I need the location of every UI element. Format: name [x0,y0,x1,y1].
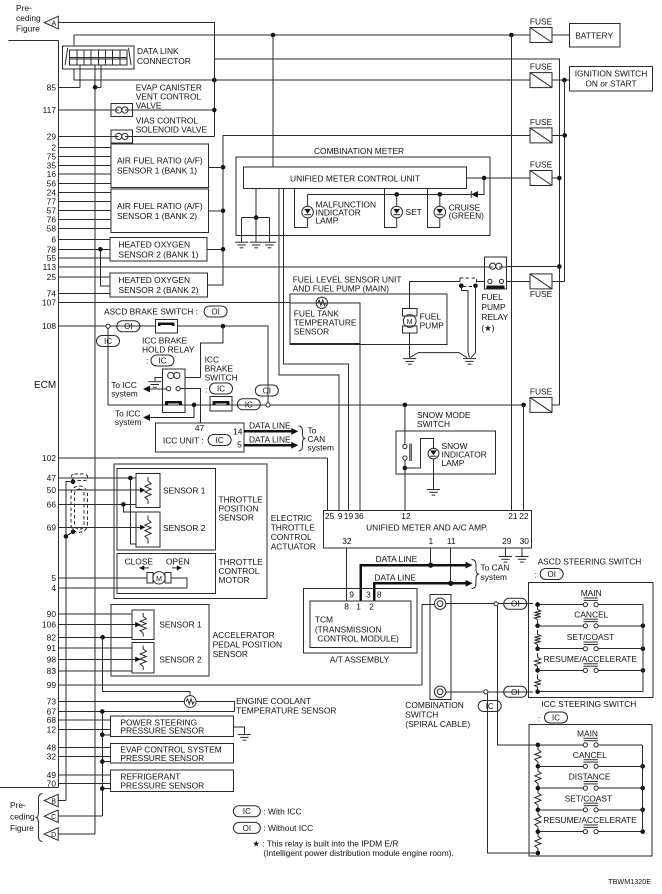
wire: ECM pin 108 [59,325,156,327]
ECM pin 35 label [47,160,57,170]
junction: brake wire tap to ICC system (lower) [149,403,196,418]
ECM pin 73 label [47,697,57,707]
ICC unit pin 47 label [195,423,205,433]
wire: snow lamp ground [433,459,435,489]
ICC SET/COAST switch [536,793,645,812]
svg-text:FUSE: FUSE [530,160,553,170]
svg-text:IC: IC [159,357,167,366]
wire: power steering sensor ground [233,727,244,734]
throttle control motor label [219,557,264,585]
svg-text:ECM: ECM [34,380,56,391]
junction: A-supply rail at fuse F4 [557,176,562,181]
APP sensor 2 wiper arrow [135,657,141,662]
svg-text:DATA LINE: DATA LINE [249,421,291,431]
in-line connector pair (dashed, tall) [71,486,88,532]
svg-text::: : [534,570,536,580]
diode (meter lamp feed) [471,191,478,198]
APP sensor 2 resistor [140,646,146,671]
preceding-figure label (top) [16,3,41,34]
svg-text:ACTUATOR: ACTUATOR [271,542,316,552]
svg-text:SENSOR 2: SENSOR 2 [159,655,202,665]
combination meter title [314,146,404,156]
wire: fuse F1 to battery [552,34,569,36]
ECM pin 69 label [47,522,57,532]
wire: ECM pin 16 [59,173,112,175]
wire: ECM pin 6 [59,239,111,241]
heated oxygen sensor 2 bank 2 box [110,273,208,297]
wire: ECM pin 68 [59,719,111,721]
svg-text:SENSOR 2 (BANK 1): SENSOR 2 (BANK 1) [119,249,199,259]
wire: A/C amp pin 1 to data line [430,548,432,565]
svg-text::: : [538,714,540,724]
svg-text:25: 25 [47,272,57,282]
legend star note [252,839,453,859]
ECM pin 107 label [42,298,56,308]
wire: ECM pin 57 [59,210,112,212]
ECM pin 57 label [47,206,57,216]
fuel level sensor unit label [293,275,402,294]
wire: DLC pin down-left to ECM pin 85 [79,65,81,87]
ECM pin 78 label [47,244,57,254]
junction: pin 69 tap to preceding figure B [64,527,76,538]
ECM pin 58 label [47,224,57,234]
ECM pin 77 label [47,197,57,207]
snow indicator lamp [428,448,439,459]
ECM pin 24 label [47,188,57,198]
ECM label [34,380,56,391]
svg-text:70: 70 [47,779,57,789]
svg-text:TCM: TCM [315,615,333,625]
wire: ECM pin 4 [59,587,188,589]
CAN brace (A/C amp) [472,560,480,589]
wire: ignition rail down right side [564,80,566,281]
wire: A/C amp pin 30 ground [521,548,523,556]
ground (power steering sensor) [238,735,251,741]
to ICC system label (upper) [111,380,138,399]
data line 1 label [376,554,418,564]
wire: meter output to A/C amp pin 9 [279,188,339,510]
svg-text:IC: IC [552,714,560,723]
ICC brake hold relay coil [168,372,180,378]
svg-text:BATTERY: BATTERY [575,31,613,41]
ECM pin 102 label [42,453,56,463]
junction on battery feed at combination meter riser [271,33,276,38]
fuel pump relay label [481,292,508,333]
arrow to ICC system (lower) [143,414,150,421]
ECM pin 48 label [47,742,57,752]
svg-text:29: 29 [502,536,512,546]
fuel level sensor unit and fuel pump box [290,294,447,345]
svg-text:DISTANCE: DISTANCE [569,772,611,782]
wire: EVAP solenoid to supply riser [132,109,214,111]
with-ICC marker oval (ICC brake switch) [205,383,233,395]
svg-text:85: 85 [47,82,57,92]
svg-text:FUSE: FUSE [530,17,553,27]
ICC brake hold relay box [163,369,185,413]
junction: sensor-ground bus at pin 67 [100,709,105,816]
fuse F5 (fuel pump) [530,274,553,299]
wire: fuse F6 to A-supply rail corner [552,404,559,406]
ECM pin 12 label [47,724,57,734]
snow mode switch label [417,410,471,429]
svg-text:SENSOR 2 (BANK 2): SENSOR 2 (BANK 2) [119,285,199,295]
wire: ECM pin 12 [59,728,111,730]
wire: ECM pin 75 [59,156,112,158]
svg-text:83: 83 [47,666,57,676]
svg-text:ICC STEERING SWITCH: ICC STEERING SWITCH [541,699,636,709]
wire: battery feed to unified meter control unit [272,35,274,167]
wire: ECM pin 106 [59,624,141,626]
fuse F6 [530,386,553,412]
svg-text:: Without ICC: : Without ICC [263,823,313,833]
wire: fuse F3 to ignition rail [552,134,565,136]
svg-text:A/T ASSEMBLY: A/T ASSEMBLY [330,655,390,665]
fuse F1 (battery) [530,17,553,43]
legend OI oval [233,822,260,833]
svg-text:102: 102 [42,453,56,463]
wire: battery feed down to A/C amp pin 21 [510,35,512,511]
ECM pin 106 label [42,620,56,630]
svg-text:PEDAL POSITION: PEDAL POSITION [213,640,283,650]
junction: ground bus stub to EVAP sensor [100,759,111,764]
snow indicator lamp label [442,441,487,468]
svg-text:SWITCH: SWITCH [205,373,238,383]
wire: ECM pin 98 [59,658,141,660]
data link connector label [137,46,191,66]
svg-text:OI: OI [211,308,219,317]
svg-text:OI: OI [511,600,519,609]
combination meter box [236,157,490,236]
wire: ECM pin 83 [59,670,133,672]
APP sensor 2 box [132,642,154,673]
svg-text:CONNECTOR: CONNECTOR [137,56,191,66]
junction: heater supply at A/F bank1 [208,165,225,170]
svg-text:ASCD BRAKE SWITCH :: ASCD BRAKE SWITCH : [104,307,198,317]
engine coolant temperature sensor (thermistor) [184,696,196,708]
TPS sensor 2 wiper arrow [140,525,146,530]
svg-text:11: 11 [447,536,456,546]
unified meter control unit box [244,167,467,189]
ground (fuel pump shield) [463,359,476,365]
ground (meter, left) [235,242,248,248]
fuel tank temperature sensor box [290,303,360,344]
wire: relay contact to ICC system (arrow) [149,388,166,390]
A/T connector pin labels (9 3 8) [349,590,382,600]
junction: A-supply rail at fuel pump relay coil [557,264,562,269]
svg-text:C: C [51,814,56,821]
A/C amp top pin labels [325,511,529,521]
ECM pin 6 label [51,235,56,245]
svg-text:HEATED OXYGEN: HEATED OXYGEN [119,275,191,285]
ICC unit pin 5 label [237,440,242,450]
ASCD brake switch contact [158,323,174,327]
accelerator pedal position sensor label [213,630,283,659]
svg-text:Pre-: Pre- [16,3,32,13]
junction: lamp bus at CRUISE lamp [438,192,443,197]
ASCD CANCEL switch [535,609,645,628]
wire: ECM pin 48 [59,746,111,748]
svg-text:AND FUEL PUMP (MAIN): AND FUEL PUMP (MAIN) [293,284,390,294]
svg-text:SWITCH: SWITCH [417,419,450,429]
malfunction indicator lamp label [316,200,377,226]
APP sensor 1 resistor [140,613,146,637]
junction: lamp bus at SET lamp [394,192,399,197]
ground (ICC brake hold relay) [148,382,161,388]
wire: DLC K-line down the page to triangle D [94,65,96,834]
in-line connector (fuel pump, dashed) [460,278,477,287]
ECM pin 90 label [47,609,57,619]
svg-text:IC: IC [486,702,494,711]
ECM pin 32 label [47,752,57,762]
svg-text:SET/COAST: SET/COAST [567,632,614,642]
ICC brake switch contact [213,401,229,405]
svg-text:OI: OI [511,688,519,697]
svg-text:3: 3 [366,590,371,600]
wire: ECM pin 50 [59,489,141,491]
wire: ECM pin 69 [59,526,141,528]
without-ICC marker oval (ASCD brake switch label) [204,306,227,317]
wire: motor return to ECM pin 4 [171,578,187,588]
svg-text:32: 32 [47,752,57,762]
svg-text:OI: OI [124,322,132,331]
svg-text:DATA LINE: DATA LINE [249,435,291,445]
ICC MAIN switch [536,728,643,747]
wire: spiral bottom branch down to ICC switch [487,694,538,853]
ground (snow lamp) [427,490,440,496]
data line 2 label [374,573,416,583]
ECM pin 99 label [47,680,57,690]
svg-text:PUMP: PUMP [420,321,445,331]
wire: ECM pin 82 [59,636,133,638]
wire: relay contact to fuse F5 [506,280,530,282]
wire: battery feed from DLC (y=35) to fuse [74,34,530,36]
wire: ECM pin 66 [59,503,137,505]
wire: lamp feed from unified unit via diode [308,176,530,195]
wire: VIAS solenoid to supply riser [132,135,214,137]
junction: fuel pump connector shield left [459,284,468,353]
svg-text:IC: IC [216,436,224,445]
to ICC system label (lower) [115,409,142,428]
ICC brake hold relay contact circles [167,387,181,391]
svg-text:SENSOR 2: SENSOR 2 [163,523,206,533]
wire: ECM pin 73 [59,701,185,703]
svg-text:MAIN: MAIN [577,728,598,738]
air fuel ratio sensor 1 bank 1 box [111,144,208,188]
ICC brake hold relay contact (thick) [166,401,182,405]
EVAP canister vent control valve label [136,83,202,111]
junction: ignition rail tap [562,78,567,83]
wire: ECM pin 49 [59,774,111,776]
wire: ECM pin 58 [59,228,112,230]
svg-text:FUSE: FUSE [530,386,553,396]
ICC steering switch box [529,724,652,856]
junction: ignition line and EVAP/VIAS riser [212,78,217,83]
APP sensor 2 label [159,655,202,665]
ECM pin 91 label [47,643,57,653]
svg-text:50: 50 [47,485,57,495]
wire: ECM pin 85 [59,86,81,88]
ECM pin 29 label [47,131,57,141]
wire: triangle C to sensor ground bus [58,815,102,817]
svg-text:COMBINATION: COMBINATION [405,700,463,710]
engine coolant temperature sensor label [236,696,336,716]
svg-text:UNIFIED METER AND A/C AMP.: UNIFIED METER AND A/C AMP. [366,523,488,533]
svg-text:SOLENOID VALVE: SOLENOID VALVE [136,125,208,135]
with-ICC oval (ICC switch title) [538,712,568,724]
wire: fuel tank temp sensor signal to A/C amp pin 36 [359,344,361,511]
open arrow [172,565,182,570]
TPS sensor 1 wiper arrow [140,487,146,492]
ICC brake hold relay label [142,336,195,355]
svg-text:5: 5 [51,573,56,583]
ASCD RESUME/ACCELERATE switch [535,654,645,673]
wire: fuse F5 to ignition rail [552,280,565,282]
ECM pin 113 label [43,262,57,272]
connector circle on brake riser [266,403,270,407]
junction: brake wire at fuse F6 / amp pin 22 [521,403,526,408]
VIAS control solenoid valve label [136,116,208,135]
junction on battery feed at A/C amp pin21 riser [509,33,514,38]
svg-text:(Intelligent power distributio: (Intelligent power distribution module e… [263,848,453,858]
wire: spiral top branch down to ICC switch [498,606,538,745]
svg-text:LAMP: LAMP [316,216,339,226]
TPS sensor 1 resistor [145,477,151,504]
wire: relay coil to A-supply rail [506,266,559,268]
wire: triangle B to throttle sensor ground tap [58,800,66,802]
ASCD MAIN switch [535,588,643,607]
snow mode switch contact [403,405,412,461]
wire: ECM pin 107 [59,302,290,304]
wire: supply from preceding figure A [58,23,214,137]
svg-text:TBWM1320E: TBWM1320E [608,877,651,886]
svg-text:99: 99 [47,680,57,690]
svg-text:DATA LINE: DATA LINE [376,554,418,564]
ECM pin 108 label [42,321,56,331]
svg-text:M: M [407,319,413,326]
wire: spiral top to ASCD switch (OI path) [446,603,533,605]
SET lamp label [406,207,422,217]
ECM pin 47 label [47,473,57,483]
wire: down to A/C amp pin 22 [523,405,525,511]
wire: branch of A-supply to right rail [214,59,559,405]
svg-text:ceding: ceding [16,13,41,23]
junction: heater supply at A/F bank2 [208,209,225,214]
svg-text:4: 4 [51,583,56,593]
ECM pin 66 label [47,499,57,509]
battery box [569,24,620,47]
wire: ECM pin 56 [59,182,112,184]
svg-text:VALVE: VALVE [136,101,162,111]
wire: relay coil left to ground [155,377,201,381]
arrow to ICC system (upper) [143,386,150,393]
with-ICC oval (ICC switch feed pair) [478,701,501,712]
ECM pin 83 label [47,666,57,676]
svg-text:SET/COAST: SET/COAST [565,793,612,803]
svg-text:AIR FUEL RATIO (A/F): AIR FUEL RATIO (A/F) [117,201,203,211]
svg-text:98: 98 [47,654,57,664]
wire: ECM pin 78 [59,248,111,250]
wire: DLC pin to battery fuse line (up) [73,35,75,46]
TPS sensor 1 box [136,473,160,507]
throttle control motor [147,572,171,584]
ECM pin 2 label [51,143,56,153]
svg-text:106: 106 [42,620,56,630]
data line from ICC unit pin 5 [244,442,298,449]
svg-text:SENSOR 1: SENSOR 1 [159,620,202,630]
ECM pin 82 label [47,632,57,642]
connector circle (top OI path) [494,602,498,606]
svg-text:PRESSURE SENSOR: PRESSURE SENSOR [120,781,204,791]
wire: DLC pin to ignition fuse line (down then right) [74,69,530,80]
junction: ground bus stub to refrigerant sensor [100,786,111,791]
svg-text::: : [205,385,207,395]
electric throttle control actuator label [271,513,316,552]
TPS sensor 2 label [163,523,206,533]
ICC switch right rail [642,745,644,832]
svg-text:Pre-: Pre- [10,800,26,810]
svg-text:COMBINATION METER: COMBINATION METER [314,146,404,156]
svg-text:108: 108 [42,321,56,331]
ECM pin 117 label [43,105,57,115]
ASCD switch right rail [535,605,643,694]
svg-text:TEMPERATURE SENSOR: TEMPERATURE SENSOR [236,706,336,716]
svg-text:B: B [51,799,56,806]
TPS sensor 2 resistor [145,516,151,544]
ECM boundary (partial box, continues to preceding figure) [0,41,59,788]
fuse F2 (ignition) [530,62,553,88]
connector triangle C [44,810,58,823]
wire: coolant sensor return to ECM pin 67 [196,702,234,712]
svg-text:2: 2 [369,602,374,612]
wire: relay contact output to ICC unit pin 47 [180,389,200,423]
svg-text:8: 8 [377,590,382,600]
throttle position sensor label [219,495,264,523]
svg-text:FUSE: FUSE [530,289,553,299]
legend IC oval [233,806,260,817]
svg-text:9: 9 [338,511,343,521]
ICC brake switch label [205,355,238,383]
svg-text:★ : This relay is built into t: ★ : This relay is built into the IPDM E/… [252,839,398,849]
svg-text:RESUME/ACCELERATE: RESUME/ACCELERATE [543,815,637,825]
svg-text:PUMP: PUMP [481,302,506,312]
APP sensor 1 wiper arrow [135,622,141,627]
svg-text:ENGINE COOLANT: ENGINE COOLANT [236,696,311,706]
svg-text:AIR FUEL RATIO (A/F): AIR FUEL RATIO (A/F) [117,156,203,166]
svg-text:12: 12 [47,724,57,734]
wire: ECM pin 76 [59,219,112,221]
fuel tank temperature sensor label [294,309,357,337]
wire: unified meter unit ground drop [255,188,257,217]
combination switch (spiral cable) box [430,595,451,700]
wire: ECM pin 102 to A/C amp pin 25 [326,458,328,511]
ECM pin 5 label [51,573,56,583]
wire: relay coil stubs [484,266,506,268]
junction: pin 78 branch to O2 bank2 [98,247,110,286]
fuel pump relay contact [487,279,505,287]
junction: brake line to hold-relay coil [200,324,225,377]
svg-text:1: 1 [429,536,434,546]
ECM pin 50 label [47,485,57,495]
svg-text:IGNITION SWITCH: IGNITION SWITCH [575,69,648,79]
ASCD ladder resistor chain [535,605,541,692]
wire: triangle D to DLC K-line [58,833,95,835]
ignition switch box [569,67,652,91]
wire: ECM pin 113 [59,266,485,268]
svg-text:D: D [51,832,56,839]
svg-text:25: 25 [325,511,335,521]
legend with-ICC text [263,807,301,817]
svg-text:14: 14 [233,427,243,437]
